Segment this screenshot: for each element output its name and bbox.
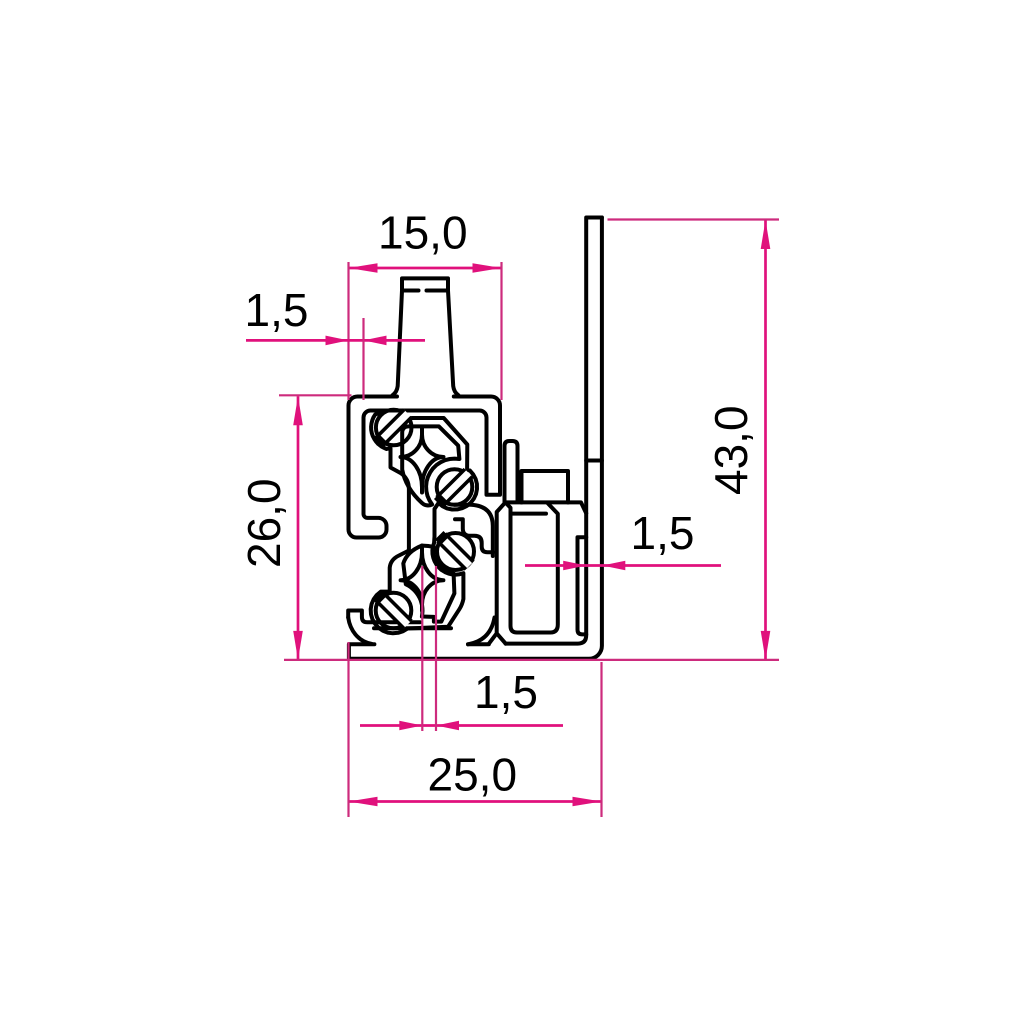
svg-text:25,0: 25,0 (428, 749, 518, 801)
base plate outline (349, 218, 602, 659)
glazing profile box wall (349, 397, 501, 538)
bottom extension baseline (284, 659, 779, 661)
dimension 43,0 (764, 220, 767, 660)
floor lower step line (374, 626, 451, 630)
svg-text:1,5: 1,5 (245, 284, 309, 336)
leg fin right of box (505, 441, 518, 502)
bottom star (401, 552, 444, 604)
cylinder C1 (376, 410, 412, 446)
dimension 25,0 (349, 800, 602, 803)
base mid-top ledge (468, 642, 489, 646)
cylinder C3 (437, 533, 474, 570)
band C3 (441, 537, 469, 565)
gasket outer contour (371, 411, 477, 634)
svg-text:26,0: 26,0 (238, 478, 290, 568)
compartment cavity (505, 502, 558, 633)
svg-text:43,0: 43,0 (705, 405, 757, 495)
fin (top spigot) (393, 278, 459, 395)
top star tails (420, 427, 424, 493)
compartment top edge (505, 502, 586, 513)
dimension 1,5 mid-right (525, 564, 721, 567)
upstand hook (348, 611, 420, 623)
top star (401, 435, 444, 488)
cylinder C4 (376, 593, 412, 629)
right wall lip outer (455, 505, 493, 556)
band C4 (379, 596, 407, 624)
bottom star tails (420, 546, 424, 611)
band C2 (440, 473, 468, 501)
dimension 1,5 top-left (246, 339, 425, 342)
svg-text:1,5: 1,5 (474, 666, 538, 718)
gasket inner cavity top (402, 426, 459, 505)
right wall lip inner staircase (455, 519, 493, 552)
gusset fillet (468, 618, 495, 645)
svg-text:15,0: 15,0 (378, 207, 468, 259)
band C1 (380, 413, 408, 441)
wall seam (586, 459, 602, 463)
right tall wall (506, 218, 602, 644)
cylinder C2 (437, 469, 473, 505)
compartment cavity top edge (512, 512, 547, 516)
upstand concave fillet (348, 618, 371, 644)
svg-text:1,5: 1,5 (631, 507, 695, 559)
screw channel slot (578, 537, 587, 634)
dimension 26,0 (297, 396, 300, 660)
compartment left wall + notch (489, 502, 506, 643)
dimension 1,5 bottom (360, 724, 563, 727)
small block on compartment top (522, 471, 569, 503)
gasket inner cavity bottom (403, 546, 454, 622)
dimension 15,0 (349, 267, 502, 270)
